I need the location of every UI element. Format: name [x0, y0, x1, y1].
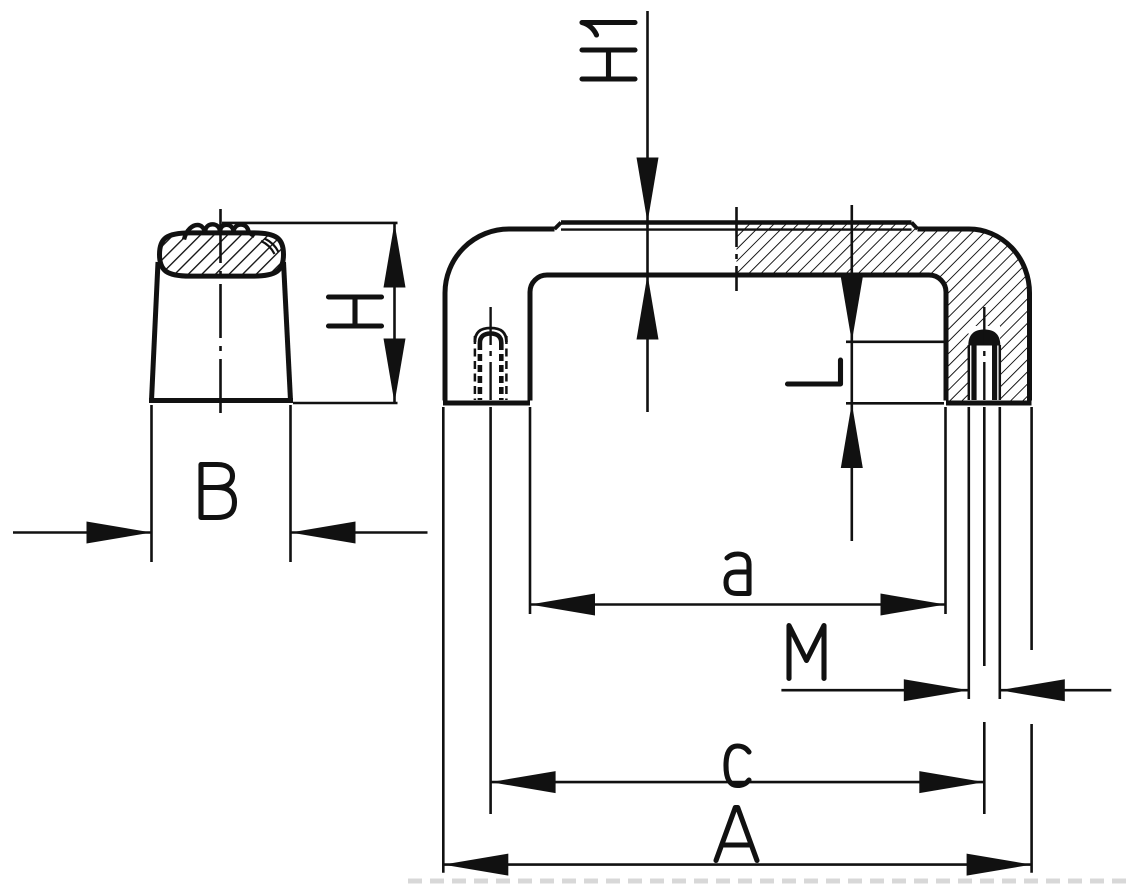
dim M: right arrow (pointing left) — [1000, 679, 1065, 701]
dim c: label c — [726, 746, 749, 786]
handle: inner top surface — [547, 273, 929, 278]
dim H1: dimension line upper segment — [646, 11, 649, 223]
handle: outer left edge — [443, 293, 448, 401]
dim B: left extension line — [150, 405, 153, 562]
dim c: left arrow — [491, 771, 556, 793]
right hole: drill walls thick — [971, 345, 976, 400]
dim A: dimension line — [443, 863, 1031, 866]
faint table edge at bottom — [408, 879, 1134, 884]
handle: outer right edge — [1027, 293, 1032, 401]
left hole: dome cap arcs — [475, 328, 507, 342]
handle: left chamfer to raised platform — [555, 223, 562, 230]
dim H: dimension line — [393, 223, 396, 403]
dim c: right extension line (hole center) — [983, 722, 986, 814]
right hole centerline extension — [983, 407, 986, 666]
dim B: right arrow — [291, 522, 356, 544]
left hole: centerline — [489, 307, 491, 401]
dim L: bottom extension line — [846, 402, 944, 405]
dim A: left extension line — [442, 407, 445, 873]
dim A: label A — [716, 808, 757, 861]
dim c: left extension line (hole center) — [489, 407, 492, 814]
left view: bead junction blobs on wavy top — [202, 228, 207, 233]
handle: inner right edge — [944, 292, 949, 401]
dim H1: upper arrow (down) — [637, 158, 659, 223]
dim L: lower arrow (up, outside) — [841, 403, 863, 468]
dim c: right arrow — [919, 771, 984, 793]
left hole: drill wall dashed lines — [478, 343, 483, 400]
handle: bottom edge left leg — [443, 401, 530, 406]
left view: inner double arc right end — [261, 241, 275, 254]
dim B: label B — [201, 465, 235, 518]
handle: top line right of platform — [918, 227, 970, 232]
left view: vertical centerline — [219, 209, 222, 418]
dim B: right extension line — [289, 405, 292, 562]
dim a: right extension line — [944, 407, 947, 614]
dim H: top arrow — [384, 223, 406, 288]
handle: thin shoulder line under platform — [561, 228, 912, 230]
dim L: span segment — [850, 342, 853, 404]
left view: grip bottom edge — [149, 398, 293, 403]
section hatching right half — [730, 210, 1040, 410]
dim A: right arrow — [967, 854, 1032, 876]
right hole: white interior slot — [977, 346, 993, 401]
dim H: top extension line — [222, 222, 398, 225]
handle: bottom edge right leg — [946, 401, 1032, 406]
dim A: left arrow — [443, 854, 508, 876]
handle: inner top-right corner — [929, 275, 946, 292]
dim B: left tail line — [13, 531, 152, 534]
dim L: label L (rotated) — [788, 360, 841, 384]
dim a: label a — [726, 554, 749, 594]
dim M: left tail line — [781, 689, 968, 692]
right hole: centerline — [983, 307, 985, 401]
left hole: thread OD dashed lines — [474, 336, 477, 400]
handle: inner left edge — [528, 292, 533, 401]
right hole: thread OD thin lines — [968, 345, 971, 400]
dim A: right extension line upper — [1030, 407, 1033, 650]
dim L: dimension line through bar — [850, 205, 853, 342]
dim L: line below arrow — [850, 403, 853, 541]
dim a: left extension line — [529, 407, 532, 614]
handle: right chamfer of platform — [912, 223, 918, 230]
dim a: right arrow — [881, 594, 946, 616]
dim H: bottom extension line — [293, 402, 398, 405]
dim L: upper arrow (down, outside) — [841, 277, 863, 342]
dim H1: line across bar — [646, 223, 649, 275]
right hole: black dome cap — [968, 330, 1000, 346]
dim c: dimension line — [491, 781, 985, 784]
dim H: label H (rotated) — [329, 297, 382, 326]
left view: wavy grip top contour — [184, 224, 255, 239]
left view: sectioned pill outline — [160, 233, 284, 276]
dim H1: lower arrow (up) — [637, 275, 659, 340]
dim a: left arrow — [530, 594, 595, 616]
left view: grip body right edge — [284, 262, 291, 401]
dim M: right thread extension line — [998, 407, 1001, 699]
dim M: left arrow (pointing right) — [904, 679, 969, 701]
dim M: left thread extension line — [967, 407, 970, 699]
dim H1: line below — [646, 275, 649, 413]
dim L: top extension line (thread depth) — [846, 340, 946, 343]
handle: raised platform top line — [561, 220, 912, 225]
dim B: right tail line — [291, 531, 428, 534]
dim M: right tail line — [1000, 689, 1112, 692]
dim B: left arrow — [87, 522, 152, 544]
dim H1: label H1 (rotated) — [582, 23, 635, 80]
dim A: right extension line lower — [1030, 724, 1033, 873]
dim M: label M — [789, 626, 824, 679]
handle: inner top-left corner — [530, 275, 547, 292]
handle: vertical centerline of bow — [735, 207, 738, 291]
left view: grip body left edge — [152, 262, 159, 401]
handle: outer top-right corner — [969, 229, 1030, 293]
left view: sectioned pill hatching — [140, 215, 310, 295]
dim H: bottom arrow — [384, 339, 406, 404]
dim a: dimension line — [530, 603, 946, 606]
handle: outer top-left corner — [445, 229, 555, 293]
